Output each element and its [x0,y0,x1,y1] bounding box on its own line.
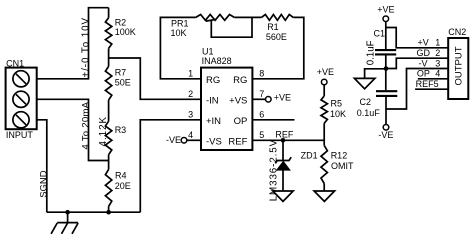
svg-text:10K: 10K [330,109,346,119]
svg-text:INPUT: INPUT [6,130,34,140]
junction dot resistor chain bottom [106,210,111,215]
resistor R4 [105,169,111,206]
wire R3-R4 [108,155,110,170]
terminal +VE top right [383,16,389,22]
svg-text:-VE: -VE [166,135,181,145]
svg-text:OP: OP [234,116,248,127]
wire U1 pin5 REF [252,139,324,141]
svg-text:4 To 20mA: 4 To 20mA [80,101,91,149]
wire U1 +IN to ground rail [140,120,201,212]
svg-text:3: 3 [188,110,193,120]
wire CN1 pin2 down to R3/R4 junction [37,99,109,160]
svg-text:20E: 20E [115,181,131,191]
svg-text:10K: 10K [171,28,187,38]
resistor R1 [261,15,293,21]
ground symbol below ZD1 [273,191,293,201]
svg-text:1: 1 [188,69,193,79]
wire U1 pin7 +VS stub [252,98,265,100]
wire R5 top [323,85,325,96]
svg-text:+VS: +VS [229,96,247,107]
wire tap to U1 -IN [109,58,201,99]
resistor R12 [321,145,327,183]
svg-text:OP: OP [417,69,430,79]
svg-text:100K: 100K [115,27,136,37]
svg-text:R3: R3 [115,125,127,135]
svg-text:8: 8 [259,69,264,79]
junction dot ground tap [65,210,70,215]
svg-text:4: 4 [188,130,193,140]
ground symbol below R12 [314,191,335,201]
svg-text:4.12K: 4.12K [98,116,109,147]
capacitor C1 [375,50,396,54]
svg-text:REF: REF [275,130,294,140]
wire CN1 pin1 to voltage input rail [37,8,109,79]
svg-text:6: 6 [259,110,264,120]
wire R1 to U1 pin8 RG [252,17,303,78]
wire U1 pin1 RG to PR1 [160,17,201,78]
wire PR1 to R1 [234,16,261,18]
svg-text:0.1uF: 0.1uF [366,40,377,65]
wire +VE down to C1 [385,22,387,49]
svg-text:OMIT: OMIT [331,161,354,171]
zener diode ZD1 LM336-2.5V [275,140,291,191]
svg-text:-VS: -VS [206,137,222,148]
terminal +VE at U1 pin7 [266,97,272,103]
wire CN2 REF5 stub [415,88,448,90]
svg-text:1: 1 [435,38,440,48]
wire R2-R7 [108,48,110,66]
svg-text:CN2: CN2 [448,27,466,37]
svg-text:R5: R5 [331,98,343,108]
svg-text:U1: U1 [202,46,214,56]
svg-text:7: 7 [259,89,264,99]
svg-text:R7: R7 [115,67,127,77]
svg-text:GD: GD [417,48,431,58]
svg-text:INA828: INA828 [202,56,232,66]
wire bottom ground rail [47,211,141,213]
svg-text:-IN: -IN [206,96,219,107]
op-amp U1 INA828 body [201,68,252,150]
wire R12 bottom [323,183,325,191]
svg-text:ZD1: ZD1 [301,151,318,161]
svg-text:C2: C2 [360,97,372,107]
connector CN1 (3-pin screw terminal, INPUT) [6,68,37,130]
svg-text:C1: C1 [374,29,386,39]
wire branch to CN2 +V [386,28,448,48]
wire PR1 wiper tap [211,17,252,37]
svg-text:REF: REF [228,137,247,148]
svg-text:+VE: +VE [274,93,291,103]
svg-text:REF5: REF5 [416,79,439,89]
wire R7-R3 [108,100,110,121]
svg-text:4: 4 [435,69,440,79]
capacitor C2 [376,91,397,96]
wire C1 to junction [385,55,387,90]
svg-text:RG: RG [206,75,220,86]
wire CN1 pin3 to signal ground [37,120,47,212]
wire U1 pin4 -VS stub [187,139,201,141]
connector CN2 (5-pin, OUTPUT) [448,38,468,99]
wire C2 to -VE [385,97,387,125]
svg-text:2: 2 [435,48,440,58]
terminal -VE bottom [383,125,389,131]
resistor R5 [321,96,327,123]
wire CN2 -V to -VE rail [386,69,448,110]
wire U1 pin6 OP stub [252,119,294,121]
junction dot mid-rail ground [384,66,389,71]
U1 pin numbers [188,69,264,141]
wire R4 bottom [108,206,110,212]
wire CN2 GD to ground junction [386,58,448,68]
wire chain top [108,8,110,18]
svg-text:560E: 560E [266,32,287,42]
svg-text:R4: R4 [115,171,127,181]
svg-text:+IN: +IN [206,116,221,127]
svg-text:0.1uF: 0.1uF [357,108,381,118]
svg-text:+V: +V [418,38,429,48]
resistor R7 [105,66,111,100]
terminal -VE at U1 pin4 [181,138,187,144]
wire CN2 OP stub [418,78,448,80]
svg-text:RG: RG [233,75,247,86]
svg-text:-VE: -VE [378,130,393,140]
svg-text:OUTPUT: OUTPUT [453,46,464,85]
terminal +VE above R5 [321,79,327,85]
svg-text:3: 3 [435,58,440,68]
svg-text:5: 5 [259,130,264,140]
svg-text:+VE: +VE [317,67,334,77]
svg-text:R12: R12 [331,151,348,161]
wire ground stub left [365,69,386,79]
svg-text:+VE: +VE [377,5,394,15]
potentiometer PR1 [196,15,235,22]
resistor R3 [105,121,111,155]
wire R5 bottom [323,123,325,140]
svg-text:50E: 50E [115,77,131,87]
svg-text:SGND: SGND [38,170,49,198]
svg-text:-V: -V [419,58,428,68]
ground symbol mid-rail [354,78,375,88]
svg-text:R1: R1 [267,22,279,32]
svg-text:+/-0 To 10V: +/-0 To 10V [80,17,91,78]
svg-text:2: 2 [188,89,193,99]
U1 pin names [206,75,248,148]
wire R12 top [323,140,325,145]
svg-text:PR1: PR1 [171,18,189,28]
resistor R2 [105,18,111,49]
CN2 pin labels [416,38,441,89]
svg-text:CN1: CN1 [6,59,24,69]
junction dot ZD1 tap [281,138,286,143]
ground (earth) symbol SGND [51,212,78,234]
